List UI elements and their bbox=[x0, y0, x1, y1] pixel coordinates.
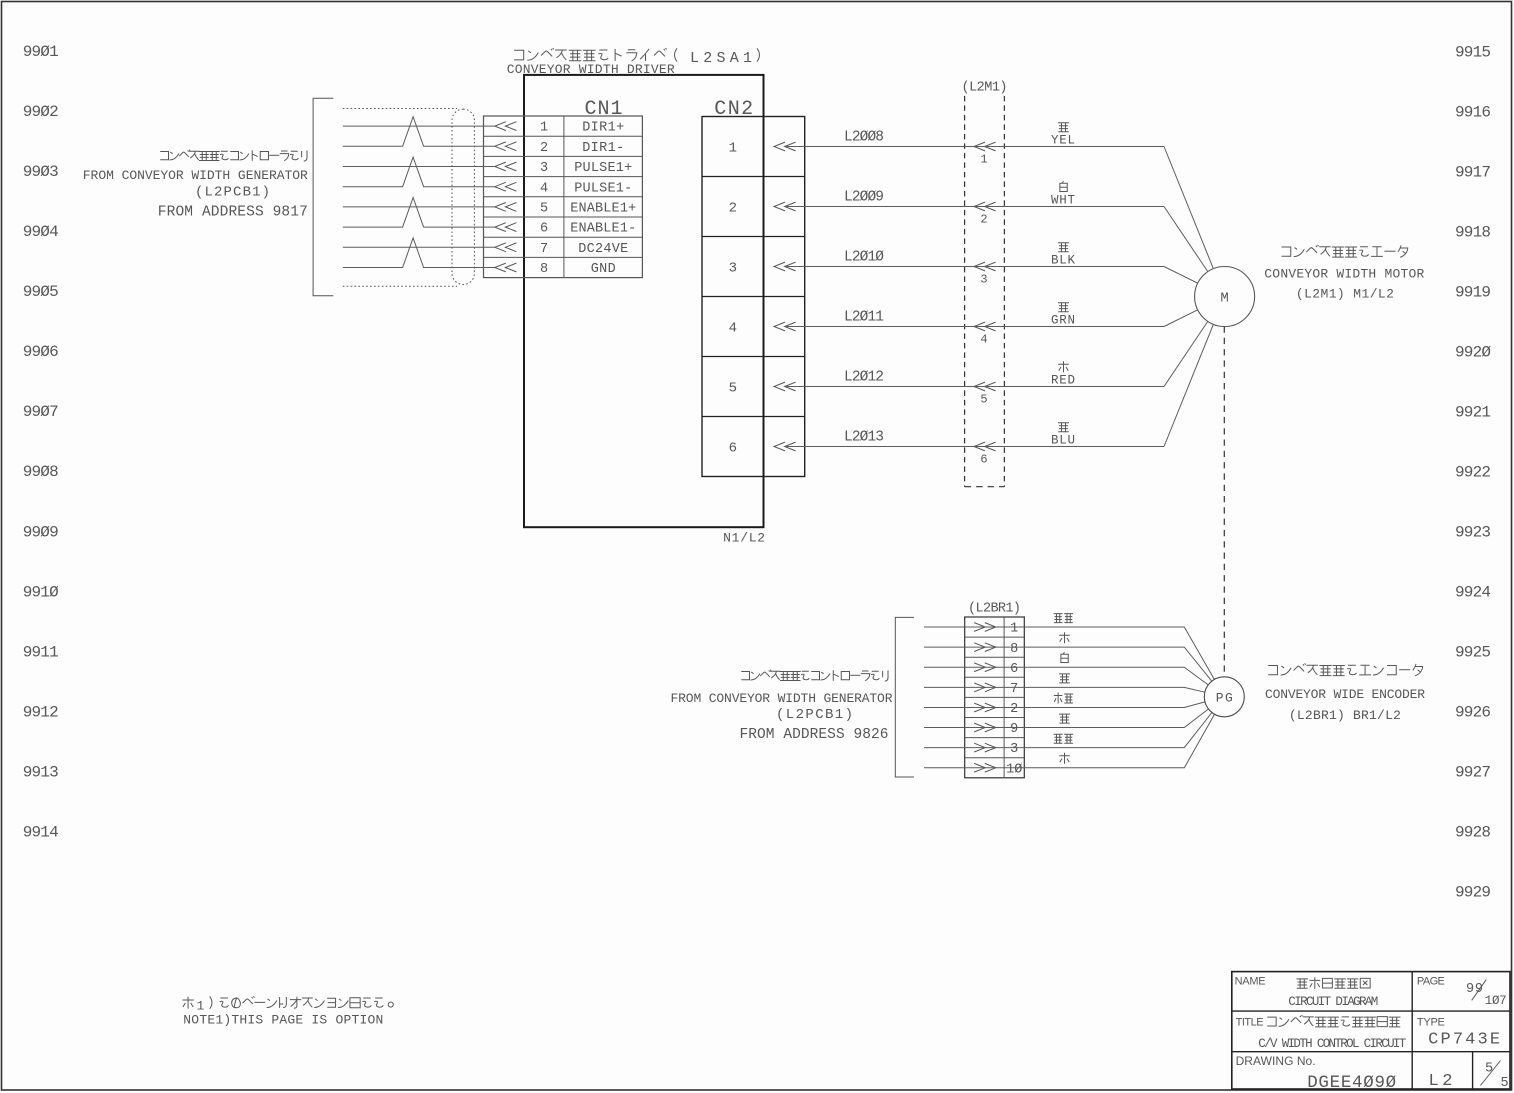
svg-text:99Ø9: 99Ø9 bbox=[23, 523, 59, 541]
svg-text:9928: 9928 bbox=[1455, 823, 1491, 841]
CN2 pin 2 bbox=[729, 200, 796, 216]
wire L2M1.6 to motor bbox=[1164, 324, 1213, 446]
svg-text:9911: 9911 bbox=[23, 643, 59, 661]
svg-text:DGEE4Ø9Ø: DGEE4Ø9Ø bbox=[1307, 1073, 1396, 1093]
net grid addresses 9901-9914 (left margin) bbox=[23, 43, 59, 842]
svg-text:7: 7 bbox=[1010, 682, 1018, 697]
L2M1 pin 1 bbox=[974, 142, 996, 167]
L2M1 pin 4 bbox=[974, 322, 996, 347]
svg-text:FROM CONVEYOR WIDTH GENERATOR: FROM CONVEYOR WIDTH GENERATOR bbox=[671, 691, 893, 706]
connector CN1 table grid bbox=[484, 116, 643, 278]
CN1 pin 8 GND bbox=[495, 262, 616, 277]
svg-text:1Ø7: 1Ø7 bbox=[1485, 994, 1507, 1008]
bracket from conveyor width generator (encoder) bbox=[895, 617, 914, 777]
svg-text:2: 2 bbox=[729, 200, 737, 216]
bracket from conveyor width generator bbox=[313, 98, 333, 295]
motor M1 (L2M1) bbox=[1195, 267, 1255, 327]
svg-text:L2Ø13: L2Ø13 bbox=[844, 429, 884, 445]
connector L2BR1 table grid bbox=[965, 617, 1025, 778]
svg-text:N1/L2: N1/L2 bbox=[723, 531, 765, 546]
L2BR1 pin 3 bbox=[974, 742, 1018, 757]
svg-text:9924: 9924 bbox=[1455, 583, 1491, 601]
svg-text:99Ø5: 99Ø5 bbox=[23, 283, 59, 301]
svg-text:(L2BR1): (L2BR1) bbox=[968, 601, 1021, 616]
wire color label BLK bbox=[1051, 243, 1075, 268]
svg-text:9915: 9915 bbox=[1455, 43, 1491, 61]
svg-text:DIR1+: DIR1+ bbox=[582, 121, 624, 136]
svg-text:9913: 9913 bbox=[23, 764, 59, 782]
label: conveyor width encoder (Japanese) bbox=[1268, 663, 1422, 675]
svg-text:L2ØØ8: L2ØØ8 bbox=[844, 129, 884, 145]
svg-text:99Ø8: 99Ø8 bbox=[23, 463, 59, 481]
cable shield (dotted) bbox=[343, 109, 475, 287]
svg-text:7: 7 bbox=[540, 242, 548, 257]
svg-text:TYPE: TYPE bbox=[1417, 1016, 1445, 1028]
wire color label GRN bbox=[1051, 303, 1075, 328]
svg-text:CONVEYOR WIDTH MOTOR: CONVEYOR WIDTH MOTOR bbox=[1264, 266, 1424, 281]
svg-text:ENABLE1+: ENABLE1+ bbox=[570, 202, 636, 217]
wire from generator to L2BR1 row 8 bbox=[924, 646, 1024, 648]
svg-text:6: 6 bbox=[729, 440, 737, 456]
wire L2M1.1 to motor bbox=[1164, 147, 1213, 269]
svg-text:99Ø4: 99Ø4 bbox=[23, 223, 59, 241]
wire to CN1 pin 1 bbox=[343, 125, 495, 127]
svg-text:1: 1 bbox=[197, 998, 205, 1013]
svg-text:9923: 9923 bbox=[1455, 523, 1491, 541]
svg-text:9926: 9926 bbox=[1455, 703, 1491, 721]
svg-text:5: 5 bbox=[980, 393, 987, 407]
label: conveyor width motor (Japanese) bbox=[1282, 245, 1408, 257]
wire L2M1.3 to motor bbox=[1164, 267, 1198, 284]
svg-text:PULSE1-: PULSE1- bbox=[574, 181, 632, 196]
svg-text:L2ØØ9: L2ØØ9 bbox=[844, 189, 884, 205]
svg-text:1: 1 bbox=[1010, 622, 1018, 637]
svg-text:3: 3 bbox=[980, 273, 987, 287]
svg-text:3: 3 bbox=[540, 161, 548, 176]
svg-text:3: 3 bbox=[729, 260, 737, 276]
svg-text:5: 5 bbox=[540, 202, 548, 217]
svg-text:9918: 9918 bbox=[1455, 223, 1491, 241]
wire from generator to L2BR1 row 3 bbox=[924, 747, 1024, 749]
wire L2008 CN2.1 to L2M1.1 bbox=[785, 129, 1164, 146]
svg-text:8: 8 bbox=[540, 262, 548, 277]
net grid addresses 9915-9929 (right margin) bbox=[1455, 43, 1491, 901]
wire from generator to L2BR1 row 7 bbox=[924, 686, 1024, 688]
wire L2010 CN2.3 to L2M1.3 bbox=[785, 249, 1164, 266]
wire L2M1.2 to motor bbox=[1164, 207, 1208, 272]
CN1 pin 3 PULSE1+ bbox=[495, 161, 632, 176]
svg-text:PAGE: PAGE bbox=[1417, 975, 1445, 987]
L2BR1 pin 8 bbox=[974, 642, 1018, 657]
svg-text:L2Ø11: L2Ø11 bbox=[844, 309, 884, 325]
svg-text:(L2M1): (L2M1) bbox=[962, 80, 1008, 95]
svg-text:M: M bbox=[1220, 291, 1228, 307]
wire from generator to L2BR1 row 1 bbox=[924, 626, 1024, 628]
svg-text:6: 6 bbox=[980, 453, 987, 467]
svg-text:FROM ADDRESS 9826: FROM ADDRESS 9826 bbox=[740, 727, 889, 743]
CN2 pin 4 bbox=[729, 320, 796, 336]
wire to CN1 pin 3 bbox=[343, 166, 495, 168]
svg-text:9922: 9922 bbox=[1455, 463, 1491, 481]
svg-text:(L2PCB1): (L2PCB1) bbox=[776, 707, 853, 723]
svg-text:CN1: CN1 bbox=[585, 98, 623, 121]
svg-text:CIRCUIT DIAGRAM: CIRCUIT DIAGRAM bbox=[1288, 995, 1378, 1009]
title block: TYPE CP743E bbox=[1417, 1016, 1500, 1049]
svg-text:C/V WIDTH CONTROL CIRCUIT: C/V WIDTH CONTROL CIRCUIT bbox=[1258, 1037, 1406, 1051]
L2BR1 pin 2 bbox=[974, 702, 1018, 717]
wire to CN1 pin 8 with twisted-pair crossover bbox=[343, 238, 495, 268]
wire L2013 CN2.6 to L2M1.6 bbox=[785, 429, 1164, 446]
svg-text:DRAWING No.: DRAWING No. bbox=[1236, 1054, 1316, 1068]
title block: NAME / circuit diagram bbox=[1235, 975, 1379, 1008]
title block frame bbox=[1232, 972, 1510, 1089]
wire from generator to L2BR1 row 2 bbox=[924, 707, 1024, 709]
wire L2BR1.3 to encoder, color 深緑 bbox=[1024, 713, 1212, 748]
label: from conveyor width controller (Japanese) bbox=[160, 150, 307, 162]
wire to CN1 pin 7 bbox=[343, 246, 495, 248]
L2M1 pin 2 bbox=[974, 202, 996, 227]
svg-text:9: 9 bbox=[1010, 722, 1018, 737]
CN1 pin 5 ENABLE1+ bbox=[495, 202, 636, 217]
connector L2M1 (dashed) bbox=[965, 96, 1005, 487]
svg-text:2: 2 bbox=[1010, 702, 1018, 717]
svg-text:99Ø7: 99Ø7 bbox=[23, 403, 59, 421]
encoder PG (L2BR1) bbox=[1204, 677, 1244, 717]
wire L2BR1.2 to encoder, color 水色 bbox=[1024, 693, 1205, 708]
wire L2BR1.8 to encoder, color 茶 bbox=[1024, 632, 1212, 681]
L2BR1 pin 1 bbox=[974, 622, 1018, 637]
op-amp/driver box U1 (L2SA1) bbox=[524, 75, 764, 527]
CN1 pin 7 DC24VE bbox=[495, 242, 628, 257]
CN1 pin 1 DIR1+ bbox=[495, 121, 624, 136]
svg-text:NOTE1)THIS PAGE IS OPTION: NOTE1)THIS PAGE IS OPTION bbox=[183, 1013, 383, 1028]
svg-text:(L2BR1) BR1/L2: (L2BR1) BR1/L2 bbox=[1289, 708, 1401, 723]
L2M1 pin 6 bbox=[974, 442, 996, 467]
svg-text:L2Ø12: L2Ø12 bbox=[844, 369, 884, 385]
svg-text:8: 8 bbox=[1010, 642, 1018, 657]
CN2 pin 5 bbox=[729, 380, 796, 396]
CN2 pin 1 bbox=[729, 140, 796, 156]
svg-text:992Ø: 992Ø bbox=[1455, 343, 1491, 361]
wire L2BR1.10 to encoder, color 灰 bbox=[1024, 714, 1214, 768]
svg-text:DC24VE: DC24VE bbox=[578, 242, 628, 257]
wire color label WHT bbox=[1051, 181, 1075, 208]
svg-text:9912: 9912 bbox=[23, 703, 59, 721]
svg-text:(L2M1) M1/L2: (L2M1) M1/L2 bbox=[1296, 287, 1394, 302]
svg-text:9925: 9925 bbox=[1455, 643, 1491, 661]
CN2 pin 6 bbox=[729, 440, 796, 456]
wire L2011 CN2.4 to L2M1.4 bbox=[785, 309, 1164, 326]
svg-text:1Ø: 1Ø bbox=[1006, 762, 1022, 777]
wire L2BR1.7 to encoder, color 黒 bbox=[1024, 674, 1205, 692]
svg-text:9929: 9929 bbox=[1455, 883, 1491, 901]
svg-text:5: 5 bbox=[1500, 1076, 1508, 1091]
svg-text:99Ø1: 99Ø1 bbox=[23, 43, 59, 61]
svg-text:YEL: YEL bbox=[1051, 134, 1075, 148]
svg-text:4: 4 bbox=[729, 320, 737, 336]
svg-text:BLK: BLK bbox=[1051, 254, 1075, 268]
svg-text:GND: GND bbox=[591, 262, 616, 277]
wire from generator to L2BR1 row 9 bbox=[924, 727, 1024, 729]
wire color label RED bbox=[1051, 361, 1075, 387]
wire from generator to L2BR1 row 6 bbox=[924, 666, 1024, 668]
svg-text:3: 3 bbox=[1010, 742, 1018, 757]
svg-text:(L2PCB1): (L2PCB1) bbox=[195, 185, 270, 201]
svg-text:6: 6 bbox=[1010, 662, 1018, 677]
CN2 pin 3 bbox=[729, 260, 796, 276]
L2BR1 pin 9 bbox=[974, 722, 1018, 737]
wire L2M1.5 to motor bbox=[1164, 321, 1208, 386]
note: this page is option (Japanese) bbox=[182, 996, 393, 1013]
title block: sheet 5/5 bbox=[1481, 1061, 1509, 1092]
svg-text:9921: 9921 bbox=[1455, 403, 1491, 421]
svg-text:FROM ADDRESS 9817: FROM ADDRESS 9817 bbox=[158, 204, 308, 220]
svg-text:WHT: WHT bbox=[1051, 194, 1075, 208]
wire L2BR1.9 to encoder, color 紫 bbox=[1024, 709, 1208, 728]
label: from conveyor width controller (Japanese, encoder) bbox=[741, 670, 888, 682]
svg-text:CONVEYOR WIDE ENCODER: CONVEYOR WIDE ENCODER bbox=[1265, 687, 1425, 702]
svg-text:99: 99 bbox=[1466, 982, 1483, 997]
wire L2009 CN2.2 to L2M1.2 bbox=[785, 189, 1164, 206]
wire to CN1 pin 2 with twisted-pair crossover bbox=[343, 117, 495, 147]
connector CN2 table grid bbox=[702, 117, 805, 477]
L2BR1 pin 6 bbox=[974, 662, 1018, 677]
svg-text:99Ø2: 99Ø2 bbox=[23, 103, 59, 121]
svg-text:4: 4 bbox=[980, 333, 987, 347]
wire to CN1 pin 5 bbox=[343, 206, 495, 208]
title block: DRAWING No. DGEE4090 bbox=[1236, 1054, 1397, 1093]
svg-text:9927: 9927 bbox=[1455, 763, 1491, 781]
svg-text:CN2: CN2 bbox=[714, 98, 753, 121]
CN1 pin 4 PULSE1- bbox=[495, 181, 632, 196]
wire from generator to L2BR1 row 10 bbox=[924, 767, 1024, 769]
svg-text:9917: 9917 bbox=[1455, 163, 1491, 181]
CN1 pin 6 ENABLE1- bbox=[495, 222, 636, 237]
svg-text:9914: 9914 bbox=[23, 824, 59, 842]
svg-text:PG: PG bbox=[1216, 691, 1233, 706]
wire L2BR1.1 to encoder, color 薄橙 bbox=[1024, 614, 1214, 680]
wire color label BLU bbox=[1051, 423, 1075, 448]
svg-text:1: 1 bbox=[540, 121, 548, 136]
svg-text:2: 2 bbox=[540, 141, 548, 156]
svg-text:2: 2 bbox=[980, 213, 987, 227]
svg-text:99Ø6: 99Ø6 bbox=[23, 343, 59, 361]
L2BR1 pin 7 bbox=[974, 682, 1018, 697]
L2BR1 pin 10 bbox=[974, 762, 1022, 777]
svg-text:NAME: NAME bbox=[1235, 975, 1266, 987]
svg-text:GRN: GRN bbox=[1051, 314, 1075, 328]
wire L2012 CN2.5 to L2M1.5 bbox=[785, 369, 1164, 386]
wire color label YEL bbox=[1051, 123, 1075, 148]
L2M1 pin 3 bbox=[974, 262, 996, 287]
svg-text:TITLE: TITLE bbox=[1236, 1016, 1264, 1028]
svg-text:9916: 9916 bbox=[1455, 103, 1491, 121]
svg-text:ENABLE1-: ENABLE1- bbox=[570, 222, 636, 237]
svg-text:5: 5 bbox=[729, 380, 737, 396]
svg-text:L2Ø1Ø: L2Ø1Ø bbox=[844, 249, 884, 265]
wire: motor-encoder mechanical link (dashed) bbox=[1223, 327, 1225, 678]
wire L2BR1.6 to encoder, color 白 bbox=[1024, 652, 1208, 685]
svg-text:RED: RED bbox=[1051, 374, 1075, 388]
wire to CN1 pin 4 with twisted-pair crossover bbox=[343, 157, 495, 187]
svg-text:BLU: BLU bbox=[1051, 434, 1075, 448]
CN1 pin 2 DIR1- bbox=[495, 141, 624, 156]
title block: PAGE 99/107 bbox=[1417, 975, 1507, 1008]
label: conveyor width driver (L2SA1) Japanese title bbox=[514, 48, 759, 67]
wire L2M1.4 to motor bbox=[1164, 310, 1198, 327]
wire to CN1 pin 6 with twisted-pair crossover bbox=[343, 198, 495, 228]
svg-text:PULSE1+: PULSE1+ bbox=[574, 161, 632, 176]
svg-text:6: 6 bbox=[540, 222, 548, 237]
svg-text:FROM CONVEYOR WIDTH GENERATOR: FROM CONVEYOR WIDTH GENERATOR bbox=[83, 168, 308, 183]
svg-text:4: 4 bbox=[540, 181, 548, 196]
svg-text:1: 1 bbox=[729, 140, 737, 156]
svg-text:1: 1 bbox=[980, 153, 987, 167]
svg-text:991Ø: 991Ø bbox=[23, 583, 59, 601]
title block: TITLE c/v width control circuit bbox=[1236, 1015, 1407, 1051]
svg-text:99Ø3: 99Ø3 bbox=[23, 163, 59, 181]
svg-text:9919: 9919 bbox=[1455, 283, 1491, 301]
svg-text:DIR1-: DIR1- bbox=[582, 141, 624, 156]
L2M1 pin 5 bbox=[974, 382, 996, 407]
